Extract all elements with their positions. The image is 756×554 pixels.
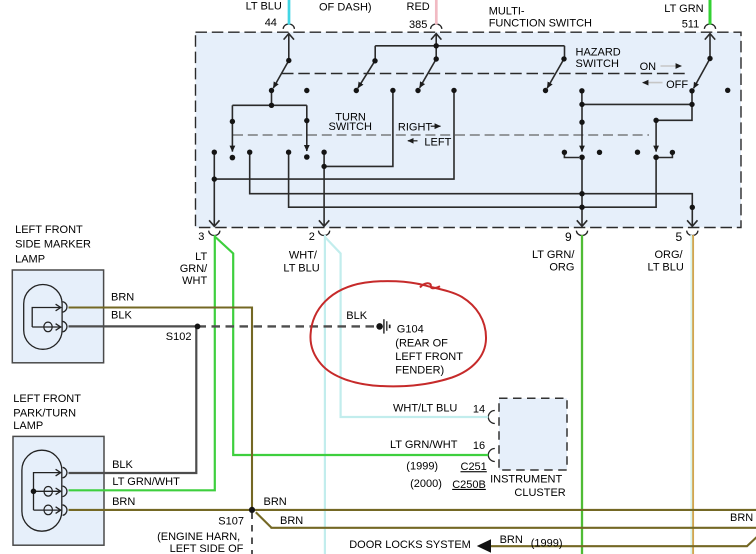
svg-text:C250B: C250B bbox=[452, 479, 486, 491]
svg-text:LT BLU: LT BLU bbox=[283, 263, 319, 275]
wire LT GRN/ORG pin 9 bbox=[581, 235, 583, 554]
svg-text:HAZARD: HAZARD bbox=[576, 47, 621, 59]
svg-text:BRN: BRN bbox=[500, 534, 523, 546]
svg-text:WHT: WHT bbox=[182, 275, 207, 287]
svg-text:2: 2 bbox=[309, 231, 315, 243]
svg-text:S107: S107 bbox=[218, 516, 244, 528]
wire BLK park lamp to S102 bbox=[69, 326, 197, 473]
hazard contact elbow left bbox=[564, 152, 579, 157]
svg-text:LEFT FRONT: LEFT FRONT bbox=[13, 393, 81, 405]
svg-text:BRN: BRN bbox=[264, 496, 287, 508]
hazard left contact chain bbox=[581, 91, 583, 105]
wire WHT/LT BLU main vertical bbox=[324, 235, 326, 554]
wire WHT/LT BLU branch to cluster pin 14 bbox=[325, 237, 488, 417]
bus wire y166.4 bbox=[324, 90, 393, 166]
svg-text:MULTI-: MULTI- bbox=[489, 6, 525, 18]
wire LT GRN/WHT pin3 to park lamp bbox=[69, 235, 215, 490]
svg-text:BLK: BLK bbox=[112, 459, 133, 471]
switch blade B2 bbox=[358, 61, 375, 88]
bus wire y193.7 to pin 5 bbox=[250, 152, 693, 226]
ground G104 bbox=[376, 319, 389, 333]
wire ORG/LT BLU pin 5 bbox=[690, 235, 692, 554]
svg-text:385: 385 bbox=[409, 19, 427, 31]
pin 511 entry wire bbox=[709, 34, 711, 59]
feed bus y45.8 bbox=[375, 45, 564, 47]
wire BRN bus 2 bbox=[271, 527, 756, 529]
svg-text:LT GRN: LT GRN bbox=[664, 3, 703, 15]
ON arrow bbox=[661, 65, 682, 67]
svg-text:LT GRN/WHT: LT GRN/WHT bbox=[112, 476, 180, 488]
svg-text:RIGHT: RIGHT bbox=[398, 121, 433, 133]
wire 44 LT BLU bbox=[288, 0, 291, 25]
svg-text:LAMP: LAMP bbox=[13, 420, 43, 432]
right throw arrow bbox=[306, 121, 308, 151]
right throw wire bbox=[306, 105, 308, 120]
WIRES-INSIDE bbox=[209, 34, 715, 227]
pin 3 connector arc bbox=[209, 231, 220, 236]
svg-text:S102: S102 bbox=[166, 331, 192, 343]
bus wire y207.2 bbox=[289, 152, 656, 207]
svg-text:3: 3 bbox=[198, 231, 204, 243]
wire BRN side marker lamp to S107 bbox=[69, 308, 253, 510]
svg-text:BRN: BRN bbox=[111, 292, 134, 304]
svg-text:CLUSTER: CLUSTER bbox=[514, 487, 565, 499]
svg-text:ON: ON bbox=[640, 61, 657, 73]
wire LT GRN/WHT branch to cluster pin 16 bbox=[215, 237, 489, 456]
svg-text:5: 5 bbox=[676, 230, 683, 244]
svg-text:LEFT SIDE OF: LEFT SIDE OF bbox=[170, 543, 244, 554]
bulb junction dot bbox=[31, 489, 37, 495]
pin 9 exit wire bbox=[581, 157, 583, 226]
pin 511 connector arc bbox=[704, 24, 715, 29]
wire 385 RED bbox=[435, 0, 438, 25]
svg-text:BLK: BLK bbox=[346, 310, 367, 322]
pin 385 entry arrow bbox=[435, 34, 437, 46]
pin 5 connector arc bbox=[687, 231, 698, 236]
pin 385 connector arc bbox=[431, 24, 442, 29]
left throw arrow bbox=[231, 122, 233, 152]
splice S102 bbox=[195, 324, 201, 330]
switch blade B3 bbox=[420, 59, 437, 88]
hazard chain continue bbox=[581, 104, 583, 122]
svg-text:(ENGINE HARN,: (ENGINE HARN, bbox=[157, 531, 240, 543]
wire BLK dashed to G104 bbox=[198, 325, 376, 327]
wire contact 44 to T-junction bbox=[271, 91, 273, 106]
splice S107 bbox=[249, 507, 255, 513]
svg-text:INSTRUMENT: INSTRUMENT bbox=[490, 474, 562, 486]
svg-text:(REAR OF: (REAR OF bbox=[395, 338, 448, 350]
cluster pin 14 connector arc bbox=[488, 411, 495, 424]
hazard contact elbow right bbox=[658, 152, 672, 157]
svg-text:LEFT: LEFT bbox=[424, 137, 451, 149]
T bar wire bbox=[232, 104, 306, 106]
hazard bus y104.4 bbox=[582, 103, 692, 105]
svg-text:DOOR LOCKS SYSTEM: DOOR LOCKS SYSTEM bbox=[349, 539, 471, 551]
left front park/turn lamp box bbox=[13, 436, 104, 545]
svg-text:SIDE MARKER: SIDE MARKER bbox=[15, 239, 91, 251]
svg-text:14: 14 bbox=[473, 403, 485, 415]
pin 3 exit wire bbox=[213, 152, 215, 226]
hazard throw arrow right bbox=[655, 120, 657, 151]
RIGHT arrow bbox=[431, 125, 441, 127]
wire BRN park lamp / bus 1 bbox=[69, 509, 756, 511]
svg-text:LEFT FRONT: LEFT FRONT bbox=[15, 224, 83, 236]
svg-text:G104: G104 bbox=[397, 324, 424, 336]
red highlight ellipse bbox=[310, 281, 486, 386]
mid pivot drop 385 bbox=[435, 46, 437, 59]
multi-function switch enclosure bbox=[196, 32, 742, 227]
filament wires bbox=[34, 473, 61, 511]
filament wires bbox=[32, 308, 60, 328]
switch blade B4 (hazard feed) bbox=[547, 59, 564, 88]
svg-text:(1999): (1999) bbox=[531, 537, 563, 549]
svg-text:WHT/LT BLU: WHT/LT BLU bbox=[393, 403, 457, 415]
wire 511 contact down bbox=[656, 91, 692, 121]
svg-text:FUNCTION SWITCH: FUNCTION SWITCH bbox=[489, 17, 592, 29]
svg-text:44: 44 bbox=[265, 17, 277, 29]
svg-text:FENDER): FENDER) bbox=[395, 364, 444, 376]
switch blade B1 (pin 44) bbox=[273, 61, 289, 89]
svg-text:9: 9 bbox=[565, 230, 572, 244]
hazard section dashed divider bbox=[282, 73, 689, 75]
instrument cluster box bbox=[499, 398, 567, 470]
bulb terminal arcs bbox=[63, 302, 67, 313]
pin 44 connector arc bbox=[283, 24, 294, 29]
svg-text:ORG/: ORG/ bbox=[654, 249, 683, 261]
svg-text:LT GRN/: LT GRN/ bbox=[532, 249, 575, 261]
wire BRN (1999) to door locks bbox=[491, 537, 756, 546]
wire 511 LT GRN bbox=[709, 0, 712, 25]
svg-text:511: 511 bbox=[682, 18, 700, 30]
bulb stadium bbox=[22, 450, 62, 531]
left pivot drop 385 bbox=[374, 46, 376, 61]
bulb stadium bbox=[24, 285, 62, 350]
junction and contact dots bbox=[212, 43, 731, 210]
pin 2 connector arc bbox=[319, 231, 330, 236]
pin 44 entry wire bbox=[288, 34, 290, 61]
svg-text:SWITCH: SWITCH bbox=[576, 58, 619, 70]
svg-text:WHT/: WHT/ bbox=[289, 249, 318, 261]
LEFT arrow bbox=[408, 140, 418, 142]
cluster pin 16 connector arc bbox=[488, 449, 495, 462]
svg-text:BRN: BRN bbox=[730, 512, 753, 524]
svg-text:OFF: OFF bbox=[666, 79, 688, 91]
turn section dashed divider bbox=[233, 134, 649, 136]
wire BLK side marker to S102 bbox=[69, 325, 198, 327]
svg-text:LAMP: LAMP bbox=[15, 254, 45, 266]
wire BRN riser to bus 2 bbox=[256, 512, 272, 528]
svg-text:LEFT FRONT: LEFT FRONT bbox=[395, 351, 463, 363]
door locks arrowhead bbox=[477, 539, 491, 552]
connector arcs at pins bbox=[209, 24, 716, 462]
right pivot drop 385 bbox=[564, 46, 566, 59]
svg-text:C251: C251 bbox=[461, 461, 487, 473]
S107 dashed leader bbox=[251, 513, 253, 554]
hazard throw arrow left bbox=[581, 122, 583, 151]
svg-text:PARK/TURN: PARK/TURN bbox=[13, 407, 76, 419]
switch blade B5 (hazard 511) bbox=[694, 59, 710, 89]
svg-text:(2000): (2000) bbox=[410, 478, 442, 490]
svg-text:SWITCH: SWITCH bbox=[329, 121, 372, 133]
svg-text:LT BLU: LT BLU bbox=[246, 1, 282, 13]
filament coils bbox=[44, 487, 52, 497]
svg-text:OF DASH): OF DASH) bbox=[319, 2, 372, 14]
bus wire y179 bbox=[214, 90, 454, 179]
svg-text:LT: LT bbox=[195, 251, 207, 263]
svg-text:LT GRN/WHT: LT GRN/WHT bbox=[390, 439, 458, 451]
pin 9 connector arc bbox=[576, 231, 587, 236]
bulb terminal arcs bbox=[63, 467, 67, 478]
pin 2 exit wire bbox=[323, 152, 325, 226]
filament coil bbox=[44, 322, 52, 332]
svg-text:BRN: BRN bbox=[112, 496, 135, 508]
svg-text:(1999): (1999) bbox=[406, 460, 438, 472]
OFF arrow bbox=[643, 82, 663, 84]
svg-text:RED: RED bbox=[407, 1, 430, 13]
svg-text:ORG: ORG bbox=[549, 262, 574, 274]
svg-text:BRN: BRN bbox=[280, 515, 303, 527]
svg-text:BLK: BLK bbox=[111, 310, 132, 322]
svg-text:16: 16 bbox=[473, 440, 485, 452]
svg-text:LT BLU: LT BLU bbox=[648, 262, 684, 274]
left throw wire bbox=[231, 105, 233, 121]
svg-text:GRN/: GRN/ bbox=[180, 263, 208, 275]
left front side marker lamp box bbox=[12, 270, 103, 363]
